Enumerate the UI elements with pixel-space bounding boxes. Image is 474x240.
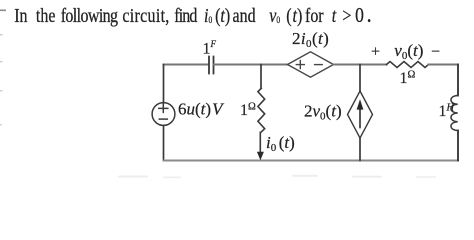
svg-text:.: . [367,0,372,27]
svg-text:−: − [431,44,440,61]
svg-text:find: find [174,4,197,26]
svg-text:t: t [332,4,337,26]
plus sign inside V1 [159,104,168,112]
wire diamond to resistor R1 [334,64,387,66]
resistor R2 zigzag (1 ohm, middle vertical) [258,88,265,132]
wire left vertical upper (source top lead) [163,65,165,103]
faint margin artifact [0,61,3,62]
plus sign inside U1 [296,61,304,69]
faint scan smudge artifacts bottom [118,175,436,178]
wire resistor to top-right corner [429,64,459,66]
inductor L1 coil (1 H) [451,96,458,131]
svg-text:+: + [371,44,380,61]
wire top-left horizontal [164,64,209,66]
svg-text:v0(t): v0(t) [269,4,302,27]
problem statement text [14,0,371,27]
svg-text:In: In [14,4,27,26]
svg-text:i0(t): i0(t) [266,133,295,154]
svg-text:2v0(t): 2v0(t) [304,102,342,123]
svg-text:1Ω: 1Ω [240,102,256,120]
arrowhead of i0 (points down onto bottom wire) [257,152,264,161]
voltage source V1 circle [152,103,175,126]
svg-text:for: for [305,4,324,26]
wire current-source bottom lead [359,138,361,161]
wire arrow stem of i0 [259,132,261,153]
svg-text:1Ω: 1Ω [400,70,416,88]
svg-text:v0(t): v0(t) [394,41,423,62]
resistor R1 zigzag (1 ohm, top right) [387,62,429,68]
faint margin artifact [0,90,3,91]
svg-text:following: following [61,4,118,26]
minus sign inside V1 [159,118,167,120]
minus sign inside U1 [315,64,323,66]
svg-text:6u(t)V: 6u(t)V [178,100,225,119]
svg-text:0: 0 [355,4,364,27]
arrowhead inside U2 (points up) [357,99,364,109]
arrow stem inside U2 [359,108,361,128]
faint margin artifact [0,124,2,125]
svg-text:the: the [36,4,56,26]
wire capacitor to dependent-source diamond [214,64,288,66]
svg-text:2i0(t): 2i0(t) [292,29,329,50]
list-marker dash artifact [0,10,6,12]
capacitor C1 plates [209,57,214,74]
faint margin artifact [0,34,3,35]
wire left vertical lower (source bottom lead) [163,125,165,160]
svg-text:circuit,: circuit, [122,4,169,26]
wire bottom horizontal [164,160,459,162]
wire right vertical lower [457,131,459,161]
svg-text:1H: 1H [439,103,456,121]
svg-text:and: and [233,4,256,26]
wire right vertical upper (inductor top lead) [457,65,459,96]
wire current-source top lead [359,65,361,92]
dependent voltage source U1 diamond [288,52,334,77]
svg-text:i0(t): i0(t) [204,4,230,27]
dependent current source U2 diamond [348,91,373,138]
svg-text:>: > [342,4,351,26]
svg-text:1F: 1F [203,39,217,58]
wire resistor R2 top lead [260,65,262,89]
